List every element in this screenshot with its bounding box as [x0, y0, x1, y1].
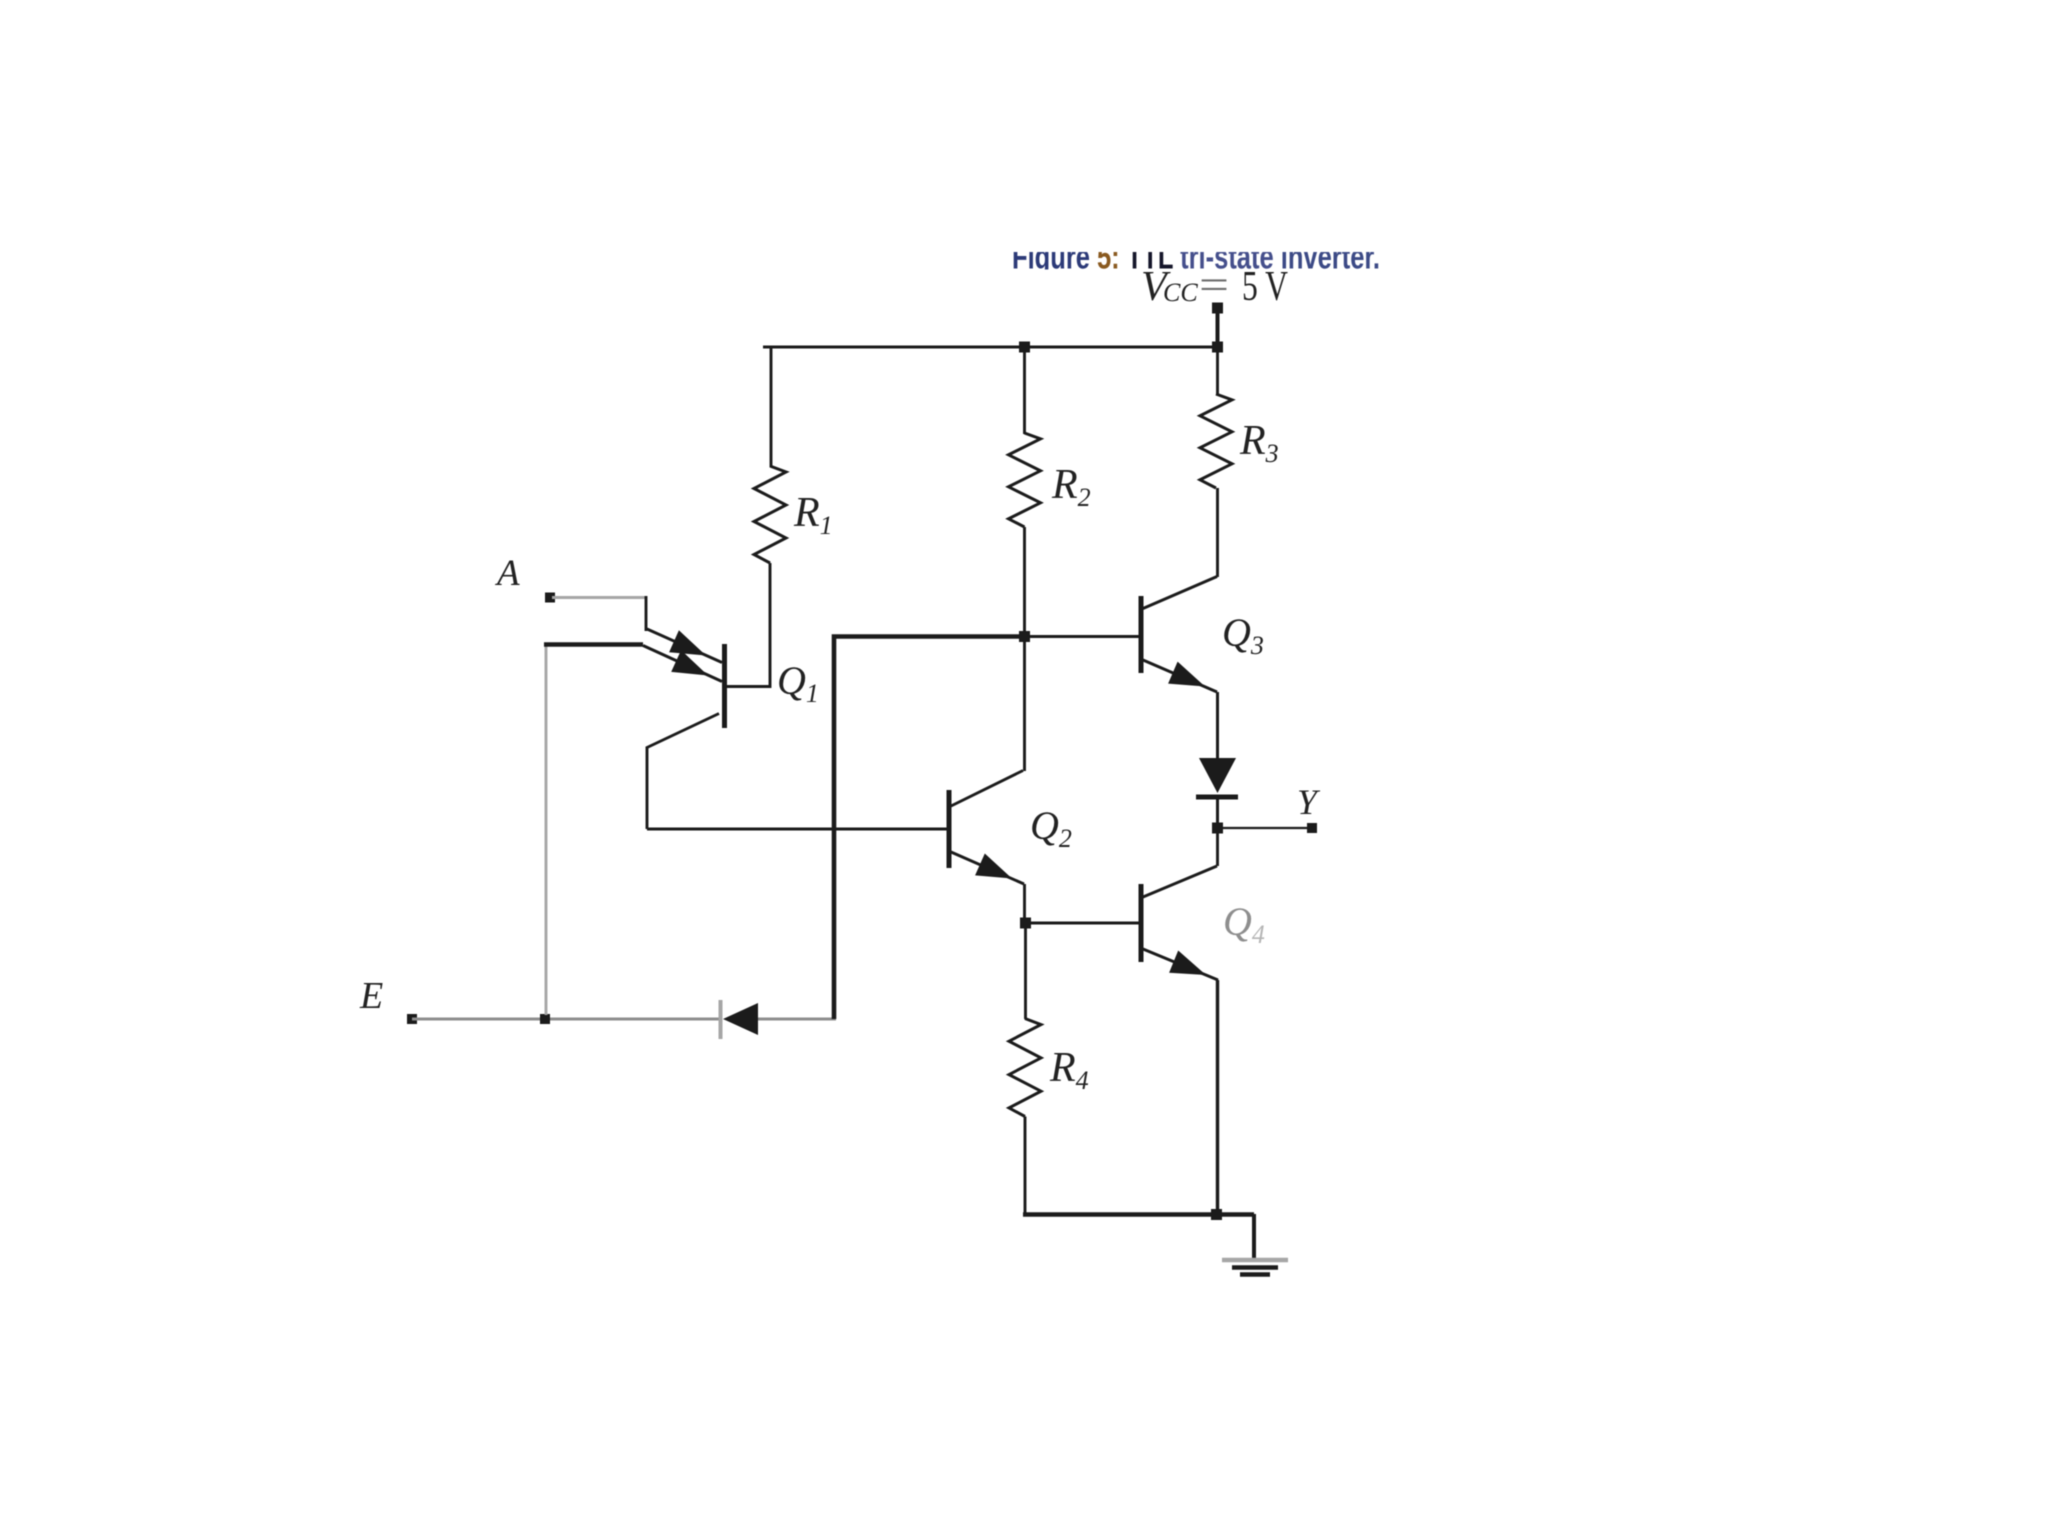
wire Q4 emitter down to ground node: [1216, 980, 1219, 1214]
caption "Figure 5: TTL tri-state inverter." (top-cropped): [1012, 239, 1380, 277]
wire node to Q3 base: [1025, 635, 1139, 638]
wire Q4 collector up to output node: [1216, 828, 1219, 866]
wire E horizontal lead: [412, 1018, 719, 1021]
wire D1 to riser corner: [758, 1018, 836, 1021]
resistor R1: [754, 466, 786, 563]
ground symbol bar 1 (gray): [1222, 1258, 1288, 1262]
transistor Q2 base bar: [947, 790, 952, 868]
diode D2 triangle: [1199, 758, 1236, 793]
node A terminal dot: [545, 593, 555, 603]
wire R3 to Q3 collector: [1216, 488, 1219, 577]
wire bottom thick wire: [1023, 1212, 1254, 1217]
wire R2 to node: [1023, 527, 1026, 637]
ground symbol bar 3: [1240, 1272, 1270, 1276]
node junction rail/R2: [1019, 342, 1030, 353]
resistor R2: [1009, 433, 1041, 527]
transistor Q3 emitter lead: [1143, 660, 1217, 692]
transistor Q4 base bar: [1139, 884, 1144, 962]
wire A corner stub: [645, 596, 648, 631]
svg-text:E: E: [359, 975, 383, 1017]
diode D1 cathode bar (gray): [719, 1000, 723, 1039]
wire R1 to Q1 base: [727, 563, 770, 687]
node phase-splitter collector node: [1019, 631, 1030, 642]
wire emitter-2 riser (gray): [545, 644, 548, 1015]
resistor R4: [1009, 1019, 1041, 1117]
wire top supply rail: [763, 346, 1218, 349]
wire VCC stem: [1216, 308, 1220, 347]
wire thick riser from D1 to phase-splitter node: [834, 637, 1025, 1020]
transistor Q1 collector lead: [646, 714, 719, 749]
wire emitter-2 feed (thick): [544, 642, 643, 647]
transistor Q3 collector lead: [1143, 577, 1217, 609]
wire Q1 collector down: [646, 747, 649, 829]
wire R4 down to bottom wire: [1024, 1117, 1027, 1214]
svg-text:CC: CC: [1163, 278, 1198, 307]
wire Q2 emitter down: [1023, 884, 1026, 923]
wire output Y lead: [1217, 827, 1308, 829]
transistor Q1 emitter 1 arrow: [669, 630, 706, 655]
node output junction dot: [1212, 823, 1223, 834]
transistor Q4 emitter arrow: [1169, 951, 1206, 976]
node junction rail/R3: [1212, 342, 1223, 353]
wire rail to R2: [1023, 346, 1026, 435]
transistor Q1 emitter 2 arrow: [671, 650, 708, 675]
transistor Q2 collector lead: [951, 771, 1023, 807]
transistor Q1 emitter 2 lead: [643, 646, 722, 682]
transistor Q4 collector lead: [1143, 866, 1217, 897]
wire Q2 collector up to node: [1023, 637, 1026, 771]
transistor Q2 emitter arrow: [975, 854, 1012, 879]
svg-text:=: =: [1199, 263, 1229, 309]
ground symbol bar 2: [1232, 1265, 1278, 1269]
node bottom junction dot: [1211, 1209, 1222, 1220]
svg-text:A: A: [494, 553, 520, 594]
wire node to Q4 base: [1025, 922, 1139, 925]
transistor Q3 emitter arrow: [1168, 662, 1205, 687]
transistor Q1 base bar: [722, 644, 727, 728]
transistor Q3 base bar: [1139, 596, 1144, 673]
wire A lead: [552, 596, 646, 599]
node VCC terminal dot: [1212, 303, 1223, 314]
transistor Q2 emitter lead: [951, 852, 1024, 884]
wire rail to R1: [770, 346, 773, 468]
node Q2 emitter / Q4 base / R4 junction: [1020, 918, 1031, 929]
wire Q1 collector to Q2 base: [647, 828, 947, 831]
wire Q3 emitter down to D2: [1216, 692, 1219, 759]
diode D2 cathode bar: [1196, 795, 1238, 800]
wire rail to R3: [1216, 346, 1219, 396]
wire node to R4: [1024, 923, 1027, 1019]
node E terminal dot: [407, 1014, 417, 1024]
node junction E / emitter-2 riser: [540, 1014, 550, 1024]
diode D1 triangle: [723, 1003, 758, 1035]
transistor Q1 emitter 1 lead: [647, 629, 722, 663]
svg-text:5 V: 5 V: [1242, 264, 1288, 310]
node Y terminal dot: [1307, 823, 1317, 833]
wire ground stem: [1252, 1214, 1256, 1259]
transistor Q4 emitter lead: [1143, 949, 1218, 980]
wire D2 to output node: [1216, 797, 1219, 828]
resistor R3: [1200, 394, 1232, 488]
